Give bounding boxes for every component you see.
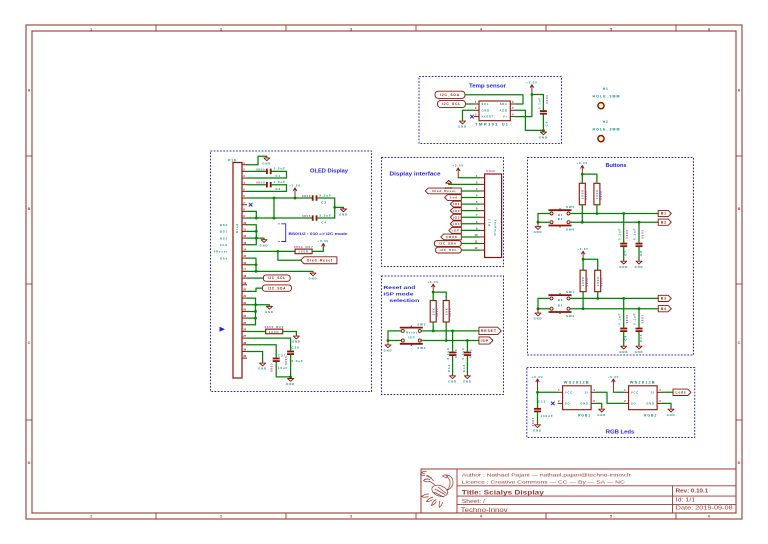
svg-text:Title: Scialys Display: Title: Scialys Display — [462, 489, 544, 496]
svg-text:TMP101: TMP101 — [475, 123, 499, 127]
capacitor C26 — [284, 345, 304, 365]
wire C27 to ground — [276, 362, 290, 377]
junction — [451, 330, 454, 333]
svg-text:GND: GND — [635, 350, 644, 354]
frame row ticks — [26, 156, 742, 420]
wire pin20 to I2C_SDA — [247, 288, 262, 291]
svg-text:Techno-Innov: Techno-Innov — [461, 507, 509, 514]
svg-text:GND: GND — [384, 349, 393, 353]
wire pin8 to pin9 net — [247, 211, 256, 218]
svg-text:6: 6 — [512, 100, 514, 104]
wire RGB2 SI to Leds label — [662, 391, 673, 393]
mounting hole H2 — [598, 136, 604, 142]
blue marker arrow — [220, 327, 226, 332]
svg-text:B1: B1 — [661, 212, 667, 216]
section box Reset and — [382, 276, 504, 395]
IC U1 right pins 6 5 4 — [510, 100, 515, 117]
svg-text:2.2uF: 2.2uF — [319, 213, 331, 217]
svg-text:#CS: #CS — [220, 243, 228, 247]
svg-text:R27: R27 — [305, 245, 313, 249]
junction — [638, 307, 641, 310]
resistor R19 — [594, 183, 603, 205]
wire bus to ground — [256, 304, 270, 306]
svg-text:SDA: SDA — [500, 102, 508, 106]
ground — [286, 377, 295, 386]
svg-text:IO2: IO2 — [453, 209, 460, 213]
svg-text:Display: Display — [493, 219, 497, 236]
wire C13 to ground — [537, 412, 539, 423]
ground — [458, 120, 467, 129]
capacitor C9 — [617, 313, 629, 341]
global label ISP — [479, 337, 493, 344]
svg-text:100K: 100K — [581, 276, 585, 286]
svg-text:12: 12 — [243, 234, 246, 238]
svg-text:15: 15 — [243, 254, 246, 258]
global label RESET — [479, 327, 501, 334]
svg-text:GND: GND — [265, 310, 274, 314]
wire switches to ground rail — [538, 214, 550, 223]
svg-text:26: 26 — [243, 328, 246, 332]
wire pin16 — [247, 264, 256, 266]
junction — [582, 307, 585, 310]
ground — [534, 309, 543, 321]
ground — [539, 130, 548, 139]
capacitor C1 — [256, 167, 286, 178]
svg-text:B4: B4 — [661, 307, 667, 311]
svg-text:GND: GND — [292, 340, 301, 344]
switch SW5 — [549, 205, 575, 217]
svg-text:GND: GND — [286, 382, 295, 386]
ground — [619, 345, 628, 354]
svg-text:RGB1: RGB1 — [578, 414, 591, 418]
svg-text:Oled: Oled — [235, 223, 239, 233]
svg-text:30: 30 — [243, 354, 246, 358]
svg-text:I2C_SCL: I2C_SCL — [440, 248, 457, 252]
wire IO4 to P17 pin8 — [461, 223, 479, 225]
wire RESET net — [421, 330, 479, 332]
svg-text:1: 1 — [624, 388, 626, 392]
global label I2C_SCL — [263, 275, 290, 281]
svg-text:0603: 0603 — [625, 314, 629, 323]
svg-text:GND: GND — [533, 428, 542, 432]
IC RGB1 pins — [558, 388, 597, 403]
svg-text:Buttons: Buttons — [606, 163, 627, 169]
wire pin27 to C26 — [247, 338, 291, 350]
svg-text:0805: 0805 — [302, 214, 311, 218]
svg-text:C: C — [28, 341, 31, 345]
svg-text:GND: GND — [597, 413, 606, 417]
ground — [265, 305, 274, 314]
svg-text:1: 1 — [558, 388, 560, 392]
svg-text:0805: 0805 — [256, 167, 265, 171]
svg-text:H1: H1 — [603, 87, 609, 91]
svg-text:BS0: BS0 — [220, 223, 228, 227]
global label B3 — [658, 295, 671, 301]
junction — [531, 93, 534, 96]
svg-text:RESET: RESET — [481, 329, 497, 333]
svg-text:selection: selection — [389, 298, 419, 304]
svg-text:GND: GND — [258, 367, 267, 371]
ground — [384, 341, 393, 353]
svg-text:5: 5 — [610, 515, 612, 519]
title block outline — [421, 469, 736, 513]
svg-text:SW2: SW2 — [566, 314, 575, 318]
svg-text:14: 14 — [243, 248, 246, 252]
wire capacitor to ground — [638, 332, 640, 345]
svg-text:1: 1 — [90, 515, 92, 519]
resistor R18 — [579, 183, 588, 205]
wire ISP to C12 — [466, 341, 468, 352]
svg-text:+3.3V: +3.3V — [526, 80, 538, 84]
ground — [635, 345, 644, 354]
wire switches to ground rail — [538, 298, 550, 308]
svg-text:I2C_SCL: I2C_SCL — [268, 276, 286, 280]
global label I2C_SDA — [262, 285, 291, 291]
wire U1 GND pin — [463, 110, 475, 119]
svg-text:17: 17 — [243, 268, 246, 272]
svg-text:IO4: IO4 — [453, 222, 460, 226]
svg-text:R22: R22 — [276, 325, 284, 329]
svg-text:22: 22 — [243, 301, 246, 305]
junction — [582, 258, 585, 261]
global label URXD — [441, 234, 462, 240]
wire Led to P17 pin4 — [461, 197, 479, 199]
wire pin24 — [247, 317, 256, 319]
note bracket BS lines — [278, 224, 285, 242]
svg-text:0.1uF: 0.1uF — [633, 313, 637, 325]
svg-text:0603: 0603 — [599, 191, 603, 200]
svg-text:25: 25 — [243, 321, 246, 325]
svg-text:ISP: ISP — [481, 339, 489, 343]
wire pin1 to ground — [247, 156, 267, 164]
switch SW2 — [549, 304, 575, 318]
svg-text:BS1: BS1 — [220, 230, 228, 234]
svg-text:0603: 0603 — [265, 325, 274, 329]
junction — [537, 307, 540, 310]
svg-text:GND: GND — [580, 402, 588, 406]
svg-text:GND: GND — [463, 379, 472, 383]
wire C3 right to junction — [317, 198, 335, 218]
wire RGB2 GND to ground — [662, 403, 671, 407]
svg-text:2: 2 — [220, 28, 222, 32]
wire R22 to ground — [283, 331, 297, 334]
svg-text:C27: C27 — [278, 353, 286, 357]
svg-text:I2C_SDA: I2C_SDA — [440, 93, 460, 97]
wire I2C_SDA to U1 pin6 — [465, 95, 523, 104]
wire B2 net — [570, 221, 658, 223]
section box Display interface — [382, 158, 504, 267]
svg-text:0603: 0603 — [469, 349, 473, 358]
ground — [635, 260, 644, 269]
svg-text:10: 10 — [243, 221, 246, 225]
wire pin25 — [247, 324, 256, 326]
svg-text:GND: GND — [619, 350, 628, 354]
wire switches left side — [388, 331, 401, 341]
connector P17 body — [485, 174, 502, 258]
wire pin6 +3.3V rail — [247, 197, 312, 199]
section box RGB Leds — [527, 368, 695, 438]
wire +3.3V to R25 — [432, 292, 434, 300]
svg-text:13: 13 — [243, 241, 246, 245]
junction — [542, 129, 545, 132]
wire B3 to capacitor — [623, 298, 625, 327]
junction — [432, 330, 435, 333]
svg-text:2.2uF: 2.2uF — [274, 180, 286, 184]
IC RGB2 WS2812B body — [629, 386, 658, 410]
ground — [533, 423, 542, 432]
ground — [260, 238, 269, 247]
svg-text:100K: 100K — [269, 330, 280, 334]
svg-text:21: 21 — [243, 294, 246, 298]
svg-text:2.2uF: 2.2uF — [291, 359, 303, 363]
ground — [448, 374, 457, 383]
svg-text:0603: 0603 — [545, 94, 549, 103]
wire pin9 to C4 — [247, 217, 312, 219]
junction — [333, 206, 336, 209]
svg-text:GND: GND — [339, 213, 348, 217]
no-connect — [551, 402, 555, 406]
svg-text:I2C_SDA: I2C_SDA — [439, 242, 457, 246]
wire +3.3V to left resistor — [581, 174, 583, 183]
svg-text:HOLE_3MM: HOLE_3MM — [593, 95, 621, 99]
capacitor C13 — [531, 400, 554, 427]
capacitor C12 — [461, 347, 473, 372]
capacitor C27 — [270, 353, 289, 372]
svg-text:SCL: SCL — [482, 102, 490, 106]
wire B4 to capacitor — [638, 309, 640, 328]
svg-text:0.1uF: 0.1uF — [537, 97, 541, 109]
svg-text:B3: B3 — [558, 298, 563, 302]
wire pin22 — [247, 304, 256, 306]
junction — [466, 339, 469, 342]
resistor R26 — [443, 301, 452, 323]
wire pin23 — [247, 310, 256, 312]
svg-text:3: 3 — [350, 28, 352, 32]
resistor R22 — [265, 325, 285, 334]
ground — [309, 271, 318, 280]
svg-text:GND: GND — [646, 402, 654, 406]
wire RGB1 SI to RGB2 SO — [596, 392, 624, 403]
mounting hole H1 — [598, 103, 604, 109]
junction — [289, 376, 292, 379]
wire +3.3V to RGB2 VCC — [613, 391, 623, 393]
global label Oled_Reset — [301, 257, 337, 264]
junction — [445, 339, 448, 342]
ground — [262, 156, 271, 165]
svg-text:IO3: IO3 — [453, 215, 460, 219]
wire vertical pin6-pin9 — [273, 198, 275, 218]
svg-text:SO: SO — [631, 402, 637, 406]
svg-text:GND: GND — [619, 265, 628, 269]
resistor R21 — [595, 270, 604, 292]
svg-text:10K: 10K — [431, 307, 435, 315]
svg-text:ADD: ADD — [500, 108, 508, 112]
junction — [537, 221, 540, 224]
svg-text:Led: Led — [450, 196, 458, 200]
wire +3.3V to C6 — [532, 95, 544, 111]
svg-text:B: B — [738, 207, 741, 211]
svg-text:0603: 0603 — [448, 308, 452, 317]
junction — [581, 221, 584, 224]
wire pin28 to C27 — [247, 345, 276, 358]
svg-text:Id: 1/1: Id: 1/1 — [676, 498, 696, 504]
svg-text:VCC: VCC — [631, 390, 639, 394]
svg-text:GND: GND — [309, 277, 318, 281]
junction — [387, 339, 390, 342]
svg-text:GND: GND — [262, 162, 271, 166]
connector P16 body — [233, 163, 242, 379]
svg-text:C12: C12 — [462, 364, 466, 372]
wire C2 to pin5 — [247, 185, 287, 192]
wire +3.3V to right resistor — [583, 259, 598, 270]
junction — [255, 237, 258, 240]
svg-text:100K: 100K — [595, 189, 599, 199]
wire ISP to P17 pin9 — [461, 229, 479, 231]
svg-text:10uF: 10uF — [278, 366, 289, 370]
power +3.3V — [532, 375, 544, 393]
junction — [254, 303, 257, 306]
wire pin17 ground rail — [247, 270, 313, 272]
svg-text:0603: 0603 — [585, 278, 589, 287]
power +3.3V — [608, 375, 620, 393]
frame column ticks — [156, 25, 676, 519]
svg-text:ISP: ISP — [408, 336, 415, 340]
global label IO1 — [450, 201, 461, 207]
svg-text:Sheet: /: Sheet: / — [462, 499, 486, 505]
ground — [292, 335, 301, 344]
global label B1 — [658, 210, 671, 216]
svg-text:2: 2 — [220, 515, 222, 519]
svg-text:Oled_Reset: Oled_Reset — [307, 259, 333, 263]
svg-text:BS0/1/2 : 010 => I2C mode: BS0/1/2 : 010 => I2C mode — [289, 232, 348, 236]
wire C4 right — [317, 217, 335, 219]
svg-text:IO1: IO1 — [453, 202, 460, 206]
svg-text:100nF: 100nF — [540, 414, 553, 418]
junction — [255, 263, 258, 266]
svg-text:2: 2 — [624, 399, 626, 403]
ground — [258, 362, 267, 371]
wire C1 to pin3 — [247, 171, 287, 178]
wire I2C_SCL to P17 pin12 — [461, 249, 479, 251]
global label I2C_SCL — [438, 100, 466, 107]
svg-text:SW3: SW3 — [417, 323, 426, 327]
ground — [597, 408, 606, 417]
wire R27 to +3.3V — [312, 247, 323, 251]
wire I2C_SCL to U1 pin1 — [466, 103, 475, 105]
wire to ground — [335, 206, 344, 208]
svg-text:Author : Nathael Pajani — nath: Author : Nathael Pajani — nathael.pajani… — [462, 472, 632, 477]
wire pin26 to R22 — [247, 330, 266, 332]
switch SW4 — [400, 336, 426, 350]
ground — [445, 180, 453, 189]
svg-text:23: 23 — [243, 308, 246, 312]
wire +3.3V to C13 — [537, 392, 539, 407]
svg-text:C11: C11 — [447, 364, 451, 372]
svg-text:C26: C26 — [291, 345, 299, 349]
wire +3.3V to left resistor — [582, 259, 584, 270]
wire pin14 net to Oled_Reset — [278, 251, 301, 260]
svg-text:Licence : Creative Commons —: Licence : Creative Commons — CC — By — S… — [462, 480, 626, 485]
junction — [273, 217, 276, 220]
wire B1 net — [570, 213, 658, 215]
junction — [581, 173, 584, 176]
svg-text:GND: GND — [534, 317, 543, 321]
junction — [254, 310, 257, 313]
wire right resistor to upper row — [596, 205, 598, 214]
svg-text:20: 20 — [243, 288, 246, 292]
ground — [667, 408, 676, 417]
svg-text:+3.3V: +3.3V — [289, 184, 301, 188]
frame column numbers — [90, 28, 710, 519]
svg-text:GND: GND — [260, 243, 269, 247]
svg-text:18: 18 — [243, 274, 246, 278]
svg-text:D: D — [738, 461, 741, 465]
global label ISP — [449, 227, 462, 233]
wire capacitor to ground — [623, 247, 625, 259]
svg-text:SO: SO — [565, 402, 571, 406]
svg-text:27: 27 — [243, 334, 246, 338]
section box Temp sensor — [419, 77, 562, 144]
global label Leds — [673, 389, 691, 395]
svg-text:VCC: VCC — [565, 390, 573, 394]
resistor R27 — [294, 245, 314, 254]
capacitor C2 — [256, 180, 286, 191]
wire IO2 to P17 pin6 — [461, 210, 479, 212]
svg-text:0603: 0603 — [600, 278, 604, 287]
svg-text:6: 6 — [708, 515, 710, 519]
resistor R25 — [430, 301, 439, 323]
svg-text:+3.3V: +3.3V — [427, 280, 439, 284]
svg-text:6: 6 — [708, 28, 710, 32]
svg-text:Temp sensor: Temp sensor — [469, 83, 506, 89]
svg-text:29: 29 — [243, 348, 246, 352]
svg-text:GND: GND — [667, 413, 676, 417]
svg-text:+3.3V: +3.3V — [452, 164, 464, 168]
wire vertical ground bus — [255, 298, 257, 325]
svg-text:C1: C1 — [275, 174, 281, 178]
svg-text:U1: U1 — [502, 123, 509, 127]
power +3.3V — [427, 280, 439, 292]
power +3.3V — [289, 184, 301, 198]
svg-text:#Reset: #Reset — [214, 250, 228, 254]
svg-text:C2: C2 — [275, 187, 281, 191]
wire C26 to ground — [290, 355, 292, 377]
svg-text:WS2812B: WS2812B — [564, 380, 590, 384]
power +3.3V — [577, 161, 589, 174]
global label I2C_SDA — [434, 241, 461, 247]
svg-text:GND: GND — [539, 136, 548, 140]
wire to ground — [256, 237, 264, 239]
svg-text:SI: SI — [651, 390, 655, 394]
junction — [596, 297, 599, 300]
global label I2C_SDA — [435, 91, 465, 98]
svg-text:SW4: SW4 — [417, 346, 426, 350]
svg-text:P17: P17 — [487, 218, 491, 226]
svg-text:0603: 0603 — [640, 229, 644, 238]
svg-text:B4: B4 — [558, 304, 563, 308]
svg-text:H2: H2 — [603, 120, 609, 124]
global label B4 — [658, 306, 671, 312]
svg-text:WS2812B: WS2812B — [630, 380, 656, 384]
svg-text:V+: V+ — [503, 115, 508, 119]
wire U1 ADD to ground net — [515, 110, 543, 130]
svg-text:URXD: URXD — [446, 235, 458, 239]
svg-text:0603: 0603 — [294, 245, 303, 249]
svg-text:24: 24 — [243, 314, 246, 318]
power +3.3V — [577, 247, 589, 259]
junction — [273, 197, 276, 200]
wire pin12 — [247, 237, 256, 239]
